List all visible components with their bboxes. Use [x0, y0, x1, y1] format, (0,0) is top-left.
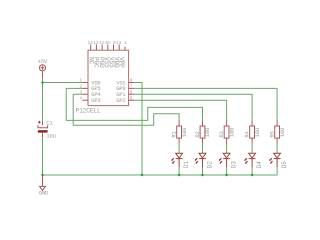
wire R3 bottom to D3	[226, 144, 228, 154]
wire GP2 pin 5 to R3	[134, 100, 226, 120]
svg-text:7: 7	[130, 86, 133, 90]
svg-text:100: 100	[181, 127, 188, 137]
svg-text:R1: R1	[170, 130, 177, 137]
IC top pin names (rotated)	[88, 57, 125, 68]
junction VSS at rail	[141, 174, 144, 177]
svg-text:100: 100	[279, 127, 286, 137]
ground GND symbol	[40, 175, 46, 190]
svg-text:100: 100	[204, 127, 211, 137]
LED D3	[223, 153, 230, 167]
junction D1 at rail	[178, 174, 181, 177]
wire +5V down to C1 top	[42, 78, 44, 121]
svg-text:R3: R3	[218, 131, 225, 137]
wire D1 bottom to rail	[178, 167, 180, 175]
resistor R2	[200, 121, 205, 144]
svg-text:+5V: +5V	[38, 58, 48, 65]
wire GP5 pin 2 to R2	[66, 88, 202, 120]
wire D2 bottom to rail	[202, 167, 204, 175]
wire VSS pin 8 to ground rail	[134, 83, 142, 176]
wire GP1 pin 6 to R4	[134, 94, 252, 120]
svg-text:2: 2	[79, 86, 82, 90]
svg-text:GND: GND	[39, 190, 49, 197]
junction D3 at rail	[225, 174, 228, 177]
LED D4	[249, 153, 256, 167]
svg-text:D3: D3	[230, 161, 237, 168]
LED D1	[176, 153, 183, 167]
IC top pin stubs	[91, 45, 125, 51]
svg-text:10u: 10u	[46, 133, 55, 140]
svg-text:3: 3	[79, 92, 82, 96]
svg-text:C1: C1	[46, 119, 53, 126]
junction at GND	[41, 174, 44, 177]
svg-text:D1: D1	[183, 161, 190, 168]
capacitor C1	[38, 121, 48, 138]
resistor R5	[275, 121, 280, 144]
svg-text:10: 10	[105, 42, 111, 46]
wire D4 bottom to rail	[251, 167, 253, 175]
svg-text:GP2: GP2	[116, 98, 125, 104]
svg-text:11: 11	[99, 42, 105, 46]
svg-text:R2: R2	[194, 131, 201, 137]
wire ground rail	[43, 174, 278, 176]
wire GP0 pin 7 to R5	[134, 88, 277, 120]
svg-text:1: 1	[124, 42, 127, 46]
LED D5	[274, 153, 281, 167]
svg-text:100: 100	[228, 127, 235, 137]
svg-text:5: 5	[130, 97, 133, 101]
svg-text:R4: R4	[243, 130, 250, 137]
LED D2	[199, 153, 206, 167]
wire +5V junction to IC pin 1 (VDD)	[43, 82, 83, 84]
junction D2 at rail	[201, 174, 204, 177]
wire R1 bottom to D1	[178, 144, 180, 154]
wire GP4 pin 3 to R1	[73, 94, 179, 125]
svg-text:100: 100	[254, 127, 261, 137]
junction at +5V / pin1	[41, 81, 44, 84]
IC pin numbers left 1-4	[79, 42, 132, 102]
svg-text:P12CELL: P12CELL	[76, 108, 101, 115]
IC right pin stubs 8-5	[129, 83, 135, 101]
wire D5 bottom to rail	[276, 167, 278, 175]
svg-text:R5: R5	[268, 131, 275, 137]
wire D3 bottom to rail	[226, 167, 228, 175]
svg-text:14: 14	[116, 42, 122, 46]
svg-text:D4: D4	[256, 161, 263, 168]
wire C1 bottom to GND junction	[42, 137, 44, 175]
capacitor plus sign	[38, 121, 41, 124]
wire R2 bottom to D2	[202, 144, 204, 154]
svg-text:1: 1	[79, 80, 82, 84]
junction D4 at rail	[251, 174, 254, 177]
IC U1 P12CELL body	[88, 50, 129, 105]
resistor R3	[224, 121, 229, 144]
svg-text:4: 4	[79, 97, 82, 101]
IC left pin stubs 1-4	[82, 83, 88, 101]
supply +5V symbol	[39, 65, 45, 78]
svg-text:D2: D2	[206, 161, 213, 168]
resistor R4	[250, 121, 255, 144]
svg-text:D5: D5	[281, 161, 288, 168]
wire R4 bottom to D4	[251, 144, 253, 154]
svg-text:8: 8	[130, 80, 133, 84]
resistor R1	[177, 121, 182, 144]
svg-text:6: 6	[130, 92, 133, 96]
svg-text:GP3: GP3	[91, 98, 100, 104]
svg-text:VPP: VPP	[118, 57, 125, 68]
IC left pin names	[91, 80, 125, 104]
svg-text:12: 12	[93, 42, 99, 46]
svg-text:13: 13	[88, 42, 94, 46]
wire R5 bottom to D5	[276, 144, 278, 154]
